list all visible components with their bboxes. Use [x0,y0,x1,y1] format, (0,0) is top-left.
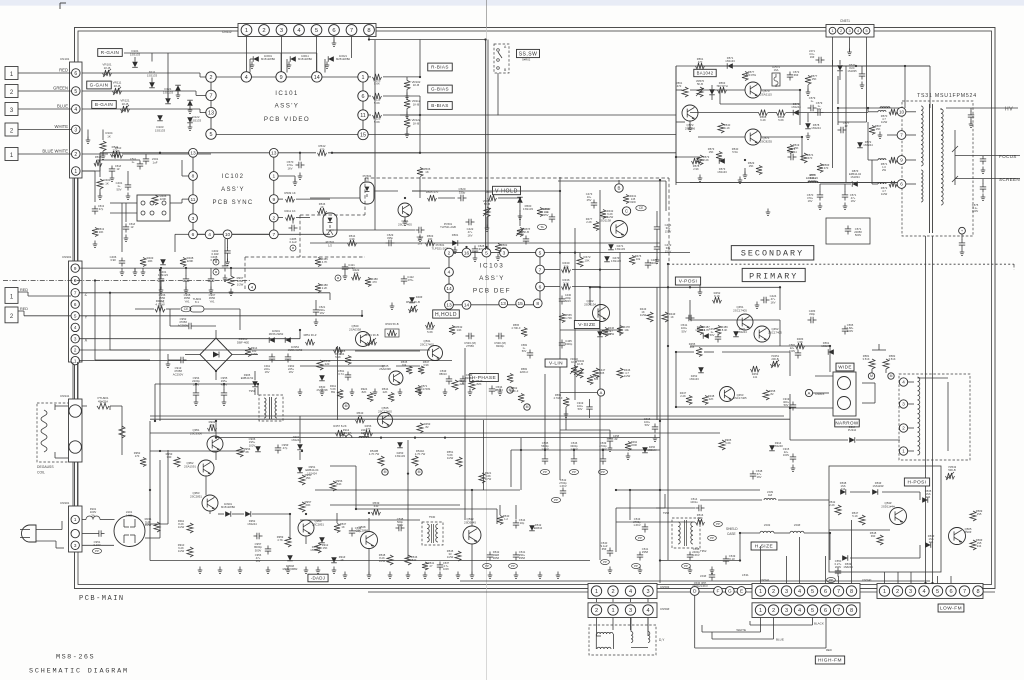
svg-text:1: 1 [831,29,833,33]
svg-text:#6#: #6# [794,73,799,77]
CN503 pin 4 [625,586,635,596]
IC101 pin 2 [206,72,216,82]
resistor R511 [82,153,108,155]
connector CN901 [69,506,83,552]
resistor R456b [364,430,373,436]
svg-text:1K-B: 1K-B [413,102,419,106]
wire IC102 pin6-4-10 bottom [197,233,205,235]
svg-text:1/2W: 1/2W [237,282,244,286]
svg-text:2SA2115: 2SA2115 [760,92,772,96]
wire RED lower 2 [18,310,24,312]
svg-text:G-GAIN: G-GAIN [90,83,109,88]
resistor R967 [228,276,234,286]
capacitor C572p [787,74,793,76]
resistor R472 [577,257,583,267]
resistor R541 [422,562,428,570]
oval CE [181,306,191,312]
svg-text:1K-B: 1K-B [122,102,129,106]
input terminal 1 (BLUE WHITE) [5,148,18,161]
circled M R911 [343,403,349,409]
svg-text:2: 2 [210,75,213,81]
svg-text:B-GAIN: B-GAIN [95,102,113,107]
svg-text:HV: HV [1005,107,1013,113]
yoke winding [918,377,920,455]
trimmer VR543 [946,473,955,479]
CN542 pin 3 [781,605,791,615]
svg-text:1: 1 [595,589,598,595]
svg-text:335p: 335p [387,236,393,240]
svg-text:CN901: CN901 [62,255,72,259]
IC101 pin 13 [206,107,216,117]
capacitor C406 [119,260,125,262]
capacitor C546 [573,450,575,456]
svg-text:PP: PP [554,498,558,502]
wire WHITE [18,129,30,131]
IC101 node 9 [276,72,286,82]
resistor R905 [719,440,725,450]
CN112 pin 1 [241,25,252,36]
label HIGH-FM [815,656,844,664]
diode D102 [175,85,181,91]
capacitor C434 [549,216,555,218]
yoke dashed enclosure [899,374,970,460]
svg-text:50V: 50V [117,187,122,191]
svg-text:50V: 50V [817,107,822,111]
svg-text:CN941: CN941 [60,394,70,398]
connector CN503 row1 [588,584,657,599]
wire GREEN [18,90,30,92]
wire sync rows [100,159,140,161]
svg-text:4: 4 [798,608,801,614]
svg-text:L532: L532 [764,523,771,527]
svg-text:ER#44: ER#44 [534,526,543,530]
capacitor C422 [468,219,470,225]
diode D532 [925,542,931,548]
svg-text:ASS'Y: ASS'Y [479,275,505,282]
svg-text:1SS244: 1SS244 [737,330,747,334]
diode D456 [642,447,648,453]
svg-text:27: 27 [430,564,433,568]
AC plug [22,525,37,542]
svg-text:1SS133: 1SS133 [191,118,202,122]
svg-text:T530: T530 [429,515,436,519]
IC101 node 4 [241,72,251,82]
diode D573 [719,158,725,164]
svg-text:1/2W: 1/2W [624,374,631,378]
svg-text:PP: PP [572,470,576,474]
svg-text:5K-B: 5K-B [523,230,529,234]
resistor R535 [406,366,412,374]
CN542 pin 1 [755,605,765,615]
svg-text:5.6K: 5.6K [725,441,731,445]
label PRIMARY [742,268,805,281]
svg-text:8200p: 8200p [496,344,504,348]
svg-text:TA: TA [540,225,544,229]
dashed enclosure sync block [364,178,366,215]
svg-text:1: 1 [611,608,614,614]
svg-text:1+: 1+ [810,99,813,103]
connector CN504 row2 [588,603,657,618]
switch SS.SW contacts [497,49,500,52]
svg-text:2: 2 [74,348,77,353]
IC102 block outline [192,153,194,235]
wire bottom bus row [368,591,995,593]
wire D letter down [694,596,696,648]
svg-text:10K: 10K [99,230,104,234]
svg-text:2SA0338: 2SA0338 [379,367,391,371]
svg-text:T952: T952 [700,549,707,553]
wire x545 vertical [544,374,546,450]
connector CN902 strip [69,261,83,362]
svg-text:100V: 100V [972,209,978,213]
wire long vertical x676 power left [675,66,677,185]
svg-text:4.7K: 4.7K [322,260,328,264]
svg-text:2: 2 [772,589,775,595]
CN901 pin 1 [71,515,79,523]
ground lm1 [111,175,113,179]
svg-text:M1512WB2: M1512WB2 [298,57,313,61]
connector CN112 [238,24,376,37]
wire CN902 pin9 bus [79,267,430,269]
diode D952 [245,511,251,517]
svg-text:D4##: D4## [416,295,423,299]
svg-text:125+: 125+ [361,431,368,435]
svg-text:B-BIAS: B-BIAS [431,103,448,108]
wire left power feeds [94,281,96,361]
resistor R914 [245,348,251,357]
resistor R506 [417,168,423,177]
svg-text:3: 3 [74,336,77,341]
svg-text:500V: 500V [855,233,861,237]
resistor R574 [801,153,807,163]
CN902 pin 3 [71,335,79,343]
oval PP C542m [551,497,560,502]
circled A node 2 [805,389,812,396]
yoke pin 1 [899,447,907,455]
wire R-GAIN bus y53 [124,52,317,54]
degauss coil dashed box [37,403,70,462]
svg-text:1SS133: 1SS133 [163,90,174,94]
svg-text:220K-F: 220K-F [510,389,519,393]
svg-text:16V: 16V [320,311,325,315]
adjustment label V-POSI [675,277,700,285]
IC103 pin 16 [462,248,471,257]
wire plug to CN901 [36,529,62,531]
ground Q572 [689,121,691,128]
svg-text:2: 2 [262,28,265,34]
wire CN112 pin1 down [246,37,248,78]
diode D535 [922,497,928,503]
svg-text:100V: 100V [847,329,853,333]
svg-text:1S1#34: 1S1#34 [808,179,818,183]
capacitor C535h [349,530,355,532]
svg-text:3: 3 [192,216,195,222]
svg-text:1K-B: 1K-B [104,66,111,70]
CN541 pin 1 [755,586,765,596]
svg-text:1/2W: 1/2W [447,456,454,460]
connector CN101 strip [70,62,83,178]
svg-text:1SS133: 1SS133 [615,247,625,251]
svg-text:8: 8 [367,28,370,34]
svg-text:7: 7 [272,232,275,238]
oval PP C548 [682,564,691,569]
svg-text:CE: CE [184,307,188,311]
svg-text:PCB-MAIN: PCB-MAIN [79,595,125,603]
resistor R504 [537,208,543,217]
ground Q501 [404,217,406,222]
svg-text:ME57.5MB2: ME57.5MB2 [283,567,298,571]
flyback pin 10 [897,107,906,116]
wire hdrive bus [330,504,460,506]
transformer T952 dashed [672,518,700,548]
svg-text:1: 1 [74,517,77,522]
wire mid col [565,407,567,430]
svg-text:2SC17405: 2SC17405 [733,308,747,312]
svg-text:50V: 50V [645,423,650,427]
fold crease line [486,0,488,28]
svg-text:1/2W: 1/2W [881,192,888,196]
resistor R487 [697,326,703,335]
svg-text:2SC17405: 2SC17405 [733,396,747,400]
svg-text:16V: 16V [771,300,776,304]
svg-text:1/2W: 1/2W [145,523,152,527]
svg-text:5: 5 [210,132,213,138]
trimmer VR501 [517,228,523,237]
svg-text:T952: T952 [663,511,670,515]
CN101 pin 3 [72,125,81,134]
svg-text:15K: 15K [709,150,714,154]
svg-text:16V: 16V [418,241,423,245]
CN902 pin 9 [71,264,79,272]
svg-text:14: 14 [446,286,452,292]
svg-text:4: 4 [798,589,801,595]
svg-text:CN901: CN901 [60,501,70,505]
svg-text:IC103: IC103 [480,263,505,270]
svg-text:1SS133: 1SS133 [689,377,699,381]
resistor R510 [114,152,123,158]
svg-text:1K: 1K [670,315,673,319]
svg-text:1/7W: 1/7W [485,477,492,481]
svg-text:2SD5445: 2SD5445 [464,520,476,524]
svg-text:TS31 MSU1FPM524: TS31 MSU1FPM524 [917,93,977,99]
diode D4## [409,297,415,303]
svg-text:1: 1 [362,75,365,81]
diode 1D954 [285,337,291,343]
connector CN571 [826,25,874,38]
svg-text:3.51K: 3.51K [888,357,895,361]
resistor R571 w coil [878,159,886,160]
svg-text:15: 15 [360,132,366,138]
IC102 pin 10 [223,230,232,239]
coil L570 [808,181,818,182]
svg-text:10: 10 [899,109,905,114]
oval PP C542 [483,564,492,569]
svg-text:5.1K: 5.1K [852,514,858,518]
svg-text:5.5A: 5.5A [732,150,738,154]
input terminal 1 (RED) [5,288,18,304]
resistor R921 [479,473,485,483]
svg-text:88010: 88010 [439,372,447,376]
svg-text:1K: 1K [107,134,111,138]
resistor R528 [345,356,351,365]
svg-text:470: 470 [372,280,377,284]
svg-text:3: 3 [280,28,283,34]
svg-text:141: 141 [753,375,758,379]
transistor Q954 [298,520,314,536]
svg-text:1/2W: 1/2W [607,215,614,219]
H-POSI block outline [829,466,941,572]
fuse 1P574 [772,73,780,86]
capacitor C954 [195,384,197,390]
svg-text:#35#: #35# [519,556,525,560]
wire H-POSI rows [850,491,870,493]
resistor R543 [356,417,365,423]
IC102 pin 2 [269,213,278,222]
svg-text:#50: #50 [210,423,215,427]
svg-text:2: 2 [772,608,775,614]
capacitor C471 [654,226,660,228]
wire sync bus a [310,197,360,199]
svg-text:16: 16 [464,250,470,256]
diode D101 [132,62,138,68]
resistor R438 [702,396,708,405]
oval PP C540 [601,560,610,565]
svg-text:2: 2 [611,589,614,595]
transistor Q572 [682,105,698,121]
svg-text:5: 5 [315,28,318,34]
resistor R509 [278,198,283,200]
svg-text:16#: 16# [810,55,815,59]
IC103 pin 3 [500,248,509,257]
resistor R540h [497,516,503,525]
svg-text:#5#: #5# [602,547,607,551]
capacitor C458b [715,336,721,338]
resistor R48# [315,284,321,293]
svg-text:7: 7 [900,133,903,138]
wire CN112 pin3 down [281,37,283,78]
svg-text:1.5K: 1.5K [797,340,803,344]
svg-text:#S##: #S## [965,530,972,534]
svg-text:1SS133: 1SS133 [155,128,166,132]
CN541 pin 7 [833,586,843,596]
svg-text:PU344: PU344 [848,428,857,432]
svg-text:SCREEN: SCREEN [999,177,1020,182]
capacitor C543 [642,526,648,528]
svg-text:50V: 50V [682,329,687,333]
wire PC501 row [374,190,398,192]
transistor Q501 [398,203,412,217]
capacitor C539 [602,450,604,456]
wire bus H y490 [315,489,520,491]
resistor R437 [686,396,692,405]
svg-text:CN541: CN541 [760,578,770,582]
resistor R543A [412,456,418,466]
svg-text:RED: RED [59,68,68,73]
svg-text:IC102: IC102 [222,174,245,180]
resistor R478 [617,326,623,335]
resistor R507 [488,195,497,201]
label LOW-FM [938,604,964,612]
svg-text:NARROW: NARROW [835,421,859,426]
resistor R111 [368,95,372,97]
svg-text:7: 7 [837,608,840,614]
resistor R403 [140,258,146,267]
dashed divider secondary/primary [668,263,1014,265]
svg-text:1uF: 1uF [153,160,158,164]
ground R104 [102,151,104,156]
svg-text:1SS133: 1SS133 [523,207,533,211]
IC102 pin 3 [189,214,198,223]
svg-text:WIDE: WIDE [838,365,852,370]
svg-text:1K-B: 1K-B [413,121,419,125]
capacitor C424 [763,297,765,303]
capacitor C430 [559,298,565,300]
svg-text:6.4K: 6.4K [760,118,766,122]
svg-text:PP: PP [710,536,714,540]
resistor R519 [787,145,793,154]
resistor R408 [180,258,186,267]
svg-text:1.6KV: 1.6KV [559,484,567,488]
svg-text:2.2K: 2.2K [680,394,686,398]
capacitor C485 [291,225,293,231]
capacitor C542c [487,554,493,556]
svg-text:8: 8 [192,174,195,180]
ground C502 [419,235,421,239]
CN571 pin 2 [838,27,845,34]
wire long verticals center [559,177,561,480]
CN902 pin 2 [71,346,79,354]
capacitor C966 [160,268,162,276]
svg-text:6: 6 [362,94,365,100]
svg-text:104: 104 [402,363,407,367]
wire L532 row [740,532,760,534]
svg-text:5: 5 [74,313,77,318]
wire video bus right2 [400,114,676,116]
diode D122 [187,117,193,123]
transistor Q571 [745,129,761,145]
capacitor C473 [591,202,597,204]
svg-text:13: 13 [446,303,452,309]
IC102 pin 11 [189,195,198,204]
focus pot [954,130,956,185]
svg-text:1/2W: 1/2W [251,352,258,356]
svg-text:M: M [384,470,387,474]
svg-text:1#p: 1#p [520,521,525,525]
svg-text:1SS133: 1SS133 [717,170,727,174]
thermistor TH901 [190,306,204,312]
wire bus y115 extension [400,114,420,116]
resistor R912 [315,543,321,553]
capacitor C570 [298,162,300,168]
transformer T530 [422,522,443,545]
svg-text:220#: 220# [631,443,637,447]
svg-text:4.7K: 4.7K [704,328,710,332]
CN541 pin 3 [781,586,791,596]
wire power rows [690,89,745,91]
adjustment label H,HOLD [433,310,460,318]
svg-text:4: 4 [208,232,211,238]
svg-text:82: 82 [771,392,774,396]
svg-text:1: 1 [759,589,762,595]
capacitor C514 [698,505,700,511]
svg-text:13: 13 [208,111,214,117]
thermistor PTH901 [82,405,87,407]
diode D103 [157,115,163,121]
diode D112 [187,100,193,106]
capacitor C565 [842,328,848,330]
capacitor C579b [817,109,819,115]
svg-text:1SS123: 1SS123 [158,273,168,277]
